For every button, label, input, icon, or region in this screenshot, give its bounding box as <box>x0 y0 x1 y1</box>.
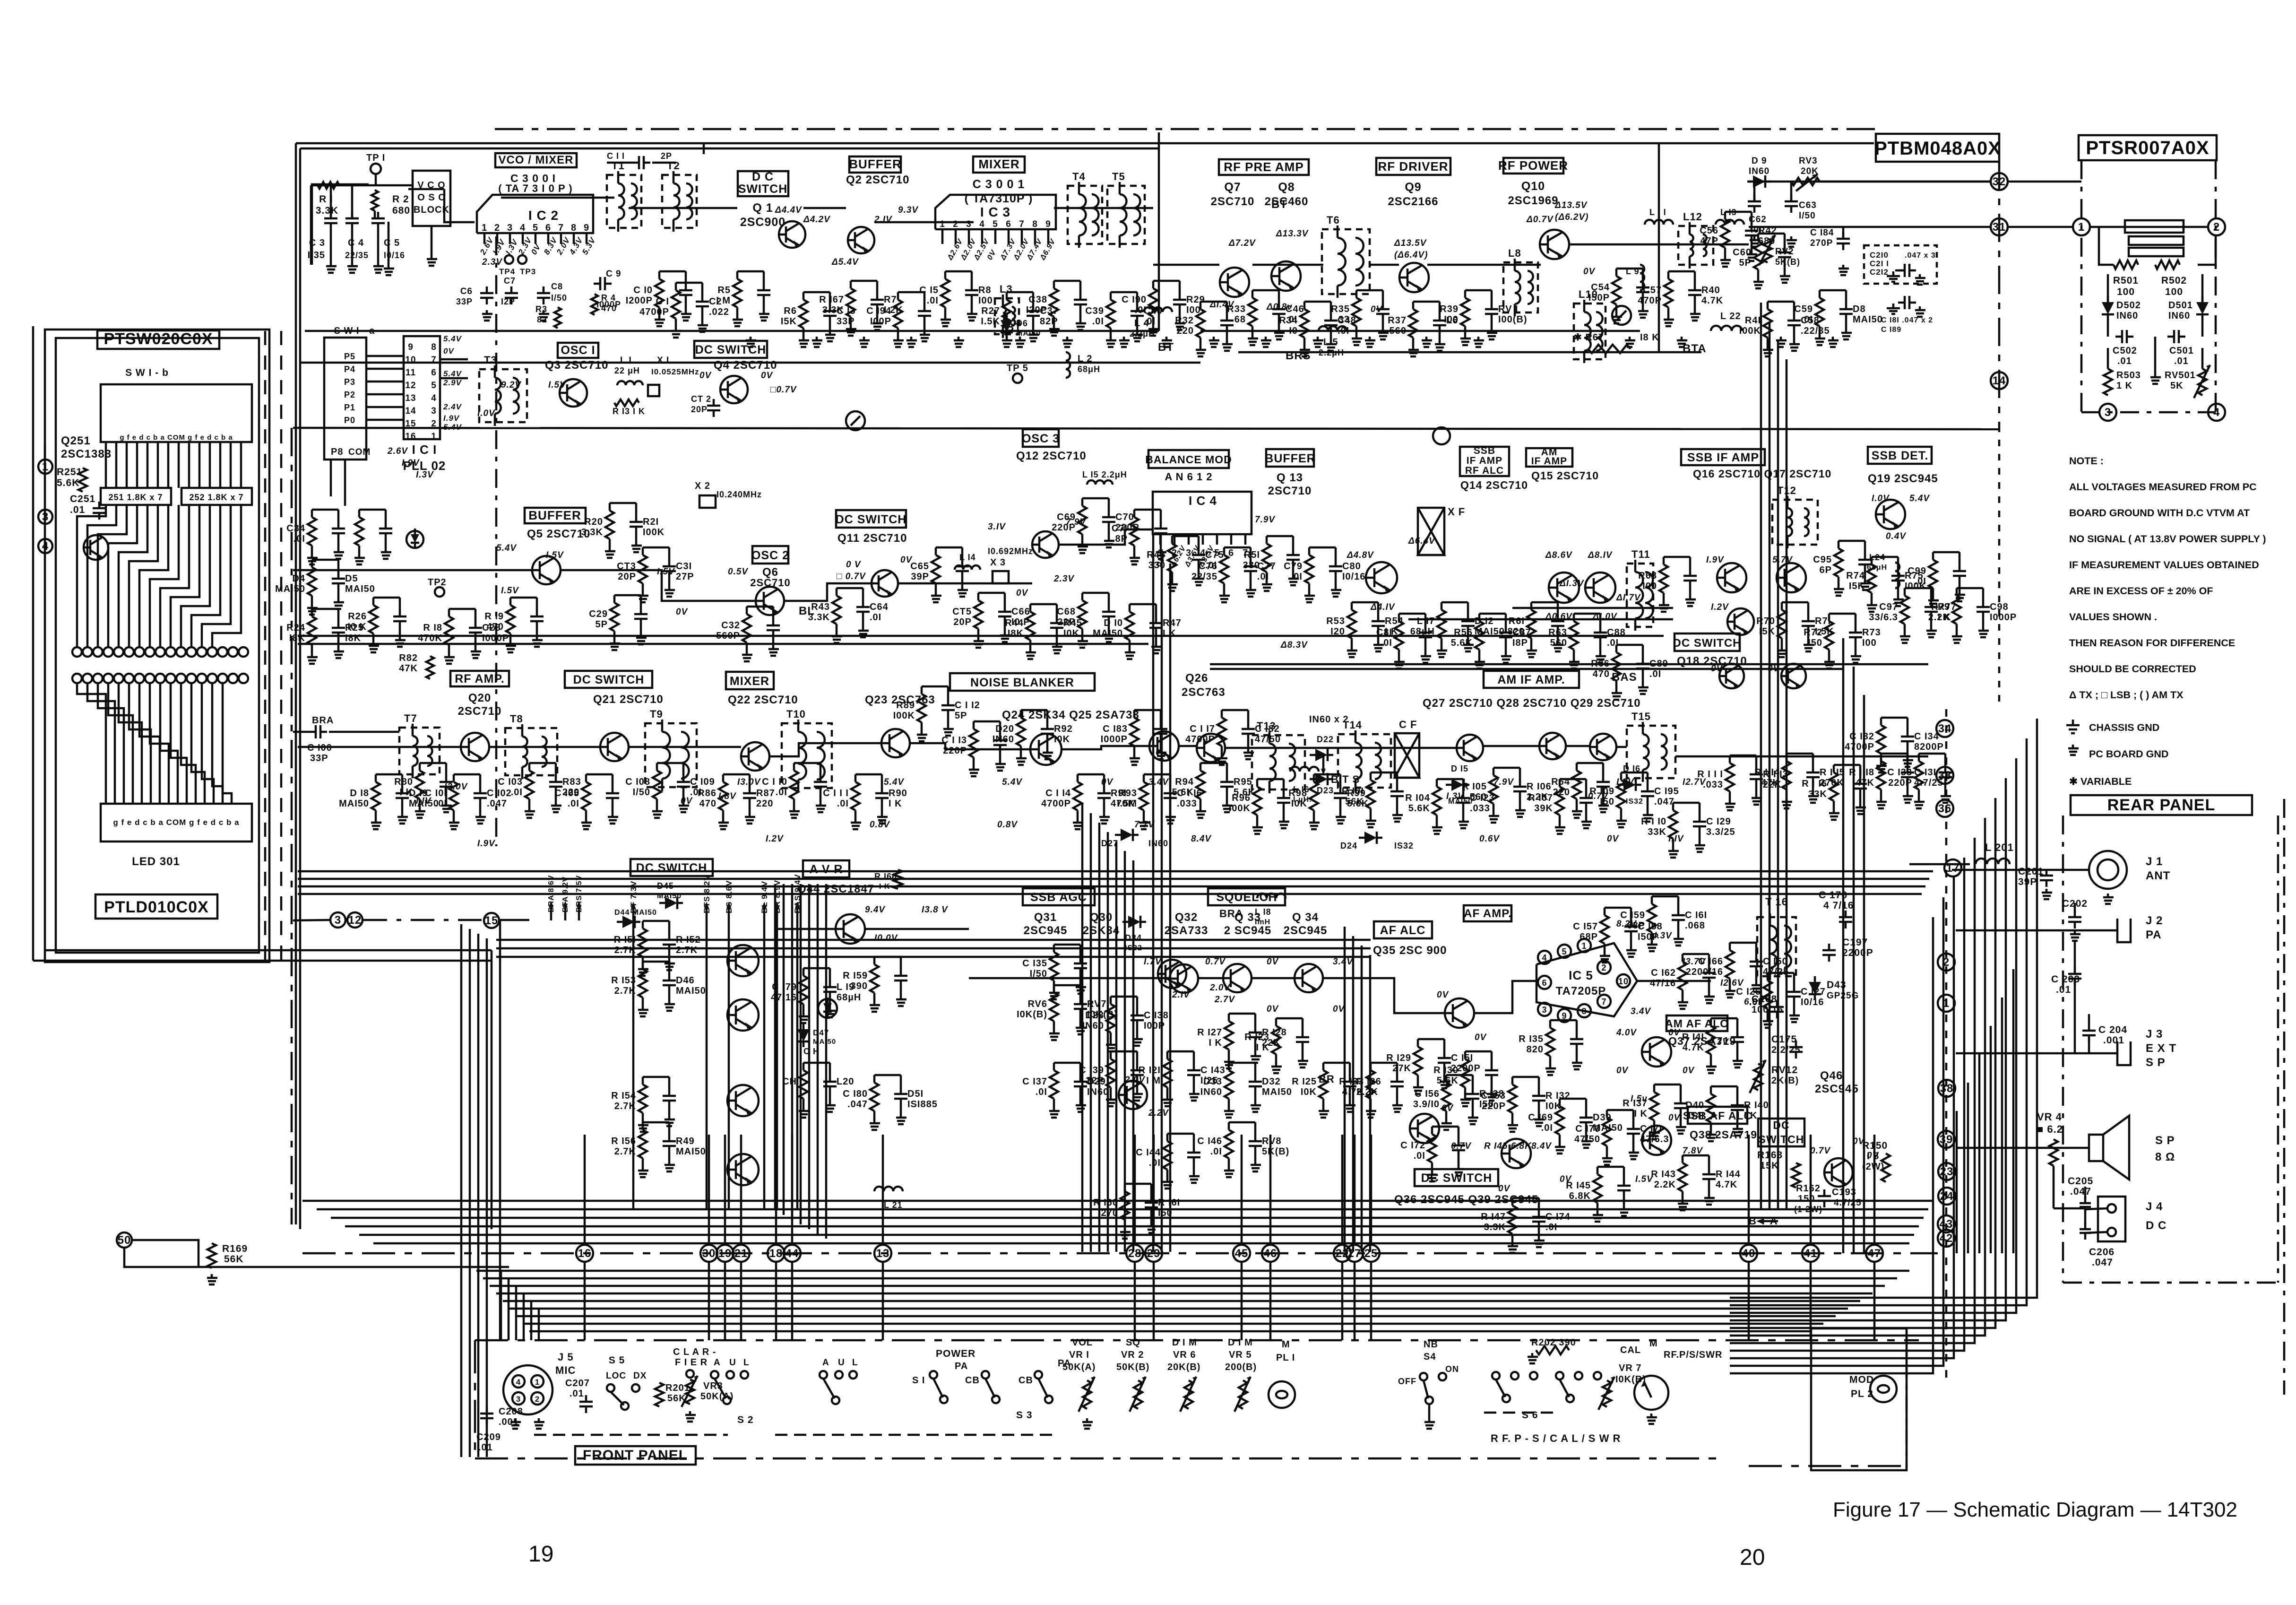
svg-text:ΔI.4V: ΔI.4V <box>1209 300 1234 310</box>
svg-text:S I: S I <box>912 1375 925 1386</box>
cluster R35 <box>1352 298 1361 326</box>
svg-text:I000P: I000P <box>1990 612 2017 623</box>
svg-text:19: 19 <box>528 1542 553 1567</box>
block label DC SWITCH (Q46) <box>1758 1119 1804 1146</box>
svg-text:A N 6 1 2: A N 6 1 2 <box>1165 471 1212 483</box>
svg-text:IN60: IN60 <box>1082 1021 1104 1031</box>
cluster C56 <box>1721 219 1729 248</box>
block label DC SWITCH (Q40-43) <box>630 859 713 876</box>
transformer L3 <box>995 298 1019 334</box>
svg-text:I K: I K <box>1163 628 1176 639</box>
cluster C I03 <box>525 771 534 799</box>
svg-text:.0I: .0I <box>511 787 523 798</box>
svg-text:C98: C98 <box>1990 602 2009 612</box>
svg-text:2.3V: 2.3V <box>482 257 502 267</box>
svg-text:8: 8 <box>571 223 577 233</box>
svg-text:I0K: I0K <box>1054 734 1070 745</box>
svg-text:R I29: R I29 <box>1386 1053 1411 1063</box>
svg-text:12: 12 <box>348 914 362 927</box>
transistor Q39 <box>1502 1139 1531 1168</box>
svg-text:4: 4 <box>431 393 437 403</box>
svg-text:I/50: I/50 <box>551 293 567 303</box>
svg-text:R I3 I K: R I3 I K <box>613 407 645 416</box>
node 47 <box>1866 1245 1883 1262</box>
svg-text:S4: S4 <box>1424 1352 1436 1362</box>
transistor Q18 <box>1727 608 1754 635</box>
inductor L21 <box>874 1187 903 1191</box>
svg-text:R92: R92 <box>1054 724 1073 734</box>
svg-text:R I52: R I52 <box>676 935 701 945</box>
cluster R94 <box>1196 771 1205 799</box>
inductor L18 1mH <box>1257 894 1286 898</box>
node 1 <box>1938 995 1955 1012</box>
svg-text:Δ6.4V: Δ6.4V <box>1408 536 1435 546</box>
svg-text:5: 5 <box>1562 947 1567 956</box>
block label MIXER Q22 <box>726 672 774 689</box>
svg-text:C56: C56 <box>1700 226 1718 236</box>
svg-text:I0K: I0K <box>1301 1087 1317 1097</box>
svg-text:D 9: D 9 <box>1752 156 1767 166</box>
svg-text:82P: 82P <box>1040 316 1058 327</box>
svg-text:5.6K: 5.6K <box>1451 638 1473 648</box>
svg-text:46: 46 <box>1264 1247 1277 1260</box>
svg-text:Δ0.7V: Δ0.7V <box>1526 215 1554 225</box>
svg-text:I/35: I/35 <box>308 250 325 260</box>
svg-text:PL I: PL I <box>1276 1353 1295 1363</box>
svg-text:R I43: R I43 <box>1651 1169 1676 1180</box>
wire: grounds row1 <box>750 337 752 340</box>
svg-text:P0: P0 <box>344 416 355 425</box>
cluster R I07 <box>1555 787 1564 815</box>
wire bus: diagonal staircase right of AVR <box>774 884 777 1210</box>
transformer T8 <box>505 728 557 775</box>
svg-text:TP3: TP3 <box>520 267 536 276</box>
svg-text:R202 390: R202 390 <box>1531 1337 1576 1348</box>
cluster C I90 <box>1149 288 1157 317</box>
cluster C I70 <box>1603 1118 1611 1146</box>
svg-text:2K(B): 2K(B) <box>1771 1076 1799 1086</box>
wire: row4 spine <box>775 928 836 930</box>
block label MIXER (IC3) <box>973 156 1025 173</box>
svg-text:RF DRIVER: RF DRIVER <box>1378 159 1448 174</box>
svg-text:R I07: R I07 <box>1528 793 1553 803</box>
connector J5 MIC <box>503 1365 552 1414</box>
cluster C I I7 <box>1217 718 1226 746</box>
svg-text:I0/16: I0/16 <box>1342 572 1365 582</box>
svg-text:MAI50: MAI50 <box>275 584 305 594</box>
svg-text:0.6V: 0.6V <box>1479 834 1500 844</box>
svg-text:6.8K: 6.8K <box>1569 1191 1591 1201</box>
block label AF AMP <box>1464 905 1511 921</box>
svg-text:(Δ6.4V): (Δ6.4V) <box>1394 250 1428 260</box>
svg-text:2P: 2P <box>661 151 672 161</box>
svg-text:13: 13 <box>405 393 416 403</box>
svg-text:C I82: C I82 <box>1255 724 1280 734</box>
cluster C I80 <box>870 1083 879 1111</box>
cluster R I23 <box>1272 1026 1280 1054</box>
svg-text:I3.7V: I3.7V <box>1683 957 1706 967</box>
svg-text:13: 13 <box>876 1247 890 1260</box>
cluster C95 <box>1834 548 1843 577</box>
svg-text:C205: C205 <box>2068 1176 2093 1187</box>
svg-text:L8: L8 <box>1508 247 1521 259</box>
wire bus: horizontal mid-left links <box>293 920 329 920</box>
svg-text:18: 18 <box>769 1247 783 1260</box>
svg-text:0V: 0V <box>1267 1004 1279 1014</box>
transistor Q44 <box>836 914 865 944</box>
svg-text:D I6: D I6 <box>1623 764 1640 773</box>
cluster R I54 <box>639 1084 647 1113</box>
transformer T2 <box>662 175 697 228</box>
svg-text:D501: D501 <box>2168 300 2193 311</box>
wire: PTSR007A0X dashed frame <box>2080 160 2083 412</box>
svg-text:220P: 220P <box>1888 778 1912 788</box>
svg-text:4.7/25: 4.7/25 <box>1834 1198 1862 1208</box>
svg-text:A: A <box>714 1358 721 1368</box>
svg-text:I.3V: I.3V <box>504 237 520 256</box>
svg-text:I00: I00 <box>1444 314 1459 325</box>
svg-text:R I40: R I40 <box>1744 1100 1769 1110</box>
svg-text:2.2μH: 2.2μH <box>1130 329 1155 338</box>
svg-text:5.4V: 5.4V <box>443 334 462 343</box>
svg-text:0V: 0V <box>1101 777 1113 787</box>
svg-text:R I4I: R I4I <box>1682 1032 1704 1042</box>
svg-text:D40: D40 <box>1685 1100 1704 1110</box>
svg-text:41: 41 <box>1804 1247 1818 1260</box>
svg-text:.0I: .0I <box>870 612 881 623</box>
svg-text:47K: 47K <box>1761 778 1780 788</box>
svg-text:D28: D28 <box>1085 1010 1104 1021</box>
svg-text:6: 6 <box>431 368 437 378</box>
svg-text:I0K(B): I0K(B) <box>1017 1009 1047 1020</box>
svg-text:2.IV: 2.IV <box>1172 990 1190 1000</box>
svg-text:IC 5: IC 5 <box>1569 968 1593 982</box>
svg-text:R I8: R I8 <box>423 623 442 633</box>
svg-text:C I29: C I29 <box>1706 816 1731 827</box>
cluster C I83 <box>1130 718 1139 746</box>
wire: LED staircase bundle lower <box>77 683 106 804</box>
svg-text:1: 1 <box>940 219 945 229</box>
svg-text:R I05: R I05 <box>1462 781 1487 792</box>
svg-text:1 K: 1 K <box>2116 381 2132 391</box>
node 22 <box>1334 1245 1351 1262</box>
jack J3 EXT SP <box>2117 1041 2131 1065</box>
svg-text:1: 1 <box>431 432 437 442</box>
svg-text:T9: T9 <box>650 708 663 720</box>
svg-text:8 Ω: 8 Ω <box>2155 1151 2175 1163</box>
svg-text:I.9V: I.9V <box>402 458 420 468</box>
svg-text:I.5K: I.5K <box>981 316 1000 327</box>
svg-text:R501: R501 <box>2113 275 2139 286</box>
cluster C I44 <box>1163 1141 1172 1170</box>
cluster R5 <box>733 279 742 307</box>
wire bus: squelch verticals <box>1344 927 1346 1252</box>
ground J5 <box>514 1418 517 1422</box>
svg-text:BRA: BRA <box>1219 908 1243 920</box>
svg-text:VALUES SHOWN .: VALUES SHOWN . <box>2069 611 2157 623</box>
svg-text:BRA: BRA <box>312 715 334 726</box>
svg-text:CHASSIS GND: CHASSIS GND <box>2089 722 2159 733</box>
node 21 <box>733 1245 750 1262</box>
svg-text:Q36 2SC945 Q39 2SC945: Q36 2SC945 Q39 2SC945 <box>1394 1193 1538 1206</box>
svg-text:C I5: C I5 <box>919 285 939 295</box>
svg-text:C2I2: C2I2 <box>1870 268 1889 277</box>
svg-text:I00P: I00P <box>1144 1021 1165 1031</box>
svg-text:DC SWITCH: DC SWITCH <box>836 513 907 526</box>
svg-text:5: 5 <box>431 381 437 390</box>
svg-text:R I I5: R I I5 <box>1820 767 1845 778</box>
svg-text:J 2: J 2 <box>2146 914 2163 927</box>
svg-text:21: 21 <box>734 1247 748 1260</box>
block label SQUELCH <box>1208 888 1285 905</box>
svg-text:L 2: L 2 <box>1078 354 1093 364</box>
cluster R33 <box>1248 298 1257 326</box>
svg-text:C I I2: C I I2 <box>955 700 980 711</box>
wire bus: RF row ground rail <box>1200 330 1640 332</box>
svg-text:24: 24 <box>1940 1190 1954 1203</box>
cluster R4I <box>1763 309 1772 338</box>
svg-text:0V: 0V <box>1683 1066 1695 1076</box>
svg-text:0V: 0V <box>1437 990 1449 1000</box>
svg-text:0V: 0V <box>1711 664 1723 674</box>
svg-text:220: 220 <box>756 798 773 809</box>
svg-text:5: 5 <box>533 223 538 233</box>
svg-text:AF AMP.: AF AMP. <box>1464 907 1512 920</box>
wire bus: AM IF row link rails <box>1210 663 1928 666</box>
resistor R13 1K <box>614 399 639 406</box>
svg-text:3.3K: 3.3K <box>1484 1222 1506 1232</box>
vco block <box>413 171 450 226</box>
node 50 <box>117 1232 132 1248</box>
node 28 <box>1126 1245 1143 1262</box>
board label PTSR007A0X <box>2079 135 2217 160</box>
svg-text:0V: 0V <box>681 796 693 806</box>
svg-text:C I74: C I74 <box>1545 1212 1571 1222</box>
IC U4 (IC 4 AN612) <box>1153 492 1252 534</box>
svg-text:20P: 20P <box>953 617 972 627</box>
svg-text:I μH.: I μH. <box>1293 796 1312 804</box>
svg-text:A: A <box>822 1358 829 1368</box>
svg-text:R4I: R4I <box>1745 315 1761 326</box>
note: chassis gnd symbol <box>2072 720 2074 725</box>
svg-text:.01: .01 <box>2056 984 2071 995</box>
svg-text:2SC945: 2SC945 <box>1024 924 1068 937</box>
svg-text:g f e d c b a COM g f e d c b: g f e d c b a COM g f e d c b a <box>120 434 233 442</box>
capacitor C11 2P <box>638 156 640 169</box>
svg-text:R95: R95 <box>1234 777 1252 787</box>
svg-text:0V: 0V <box>1498 1184 1511 1194</box>
cluster R I56 <box>639 1130 647 1158</box>
svg-text:R56: R56 <box>1454 627 1473 638</box>
svg-text:16: 16 <box>578 1247 592 1260</box>
svg-text:Δ5.4V: Δ5.4V <box>831 257 859 267</box>
svg-text:I.5M: I.5M <box>1117 798 1137 809</box>
svg-text:0V: 0V <box>699 371 712 381</box>
svg-text:I5K: I5K <box>1849 581 1865 591</box>
svg-text:I0/16: I0/16 <box>1801 997 1824 1007</box>
svg-text:.047: .047 <box>2092 1257 2113 1268</box>
cluster R24 <box>308 616 316 645</box>
cluster C I72 <box>1428 1134 1436 1163</box>
svg-text:R I04: R I04 <box>1405 793 1430 803</box>
cluster R I59 <box>870 964 879 993</box>
wire bus: nested L-bends to right connector column <box>1730 719 2037 1298</box>
svg-text:R I47: R I47 <box>1481 1212 1506 1222</box>
block label BALANCE MOD <box>1148 450 1229 468</box>
svg-text:20: 20 <box>1740 1545 1765 1570</box>
transistor Q37 <box>1642 1037 1671 1067</box>
board label PTBM048A0X <box>1876 134 1999 162</box>
cluster D40 <box>1707 1094 1715 1122</box>
diode D501 IN60 <box>2196 302 2209 314</box>
svg-text:I0/16: I0/16 <box>384 251 405 260</box>
block label SSB IF AMP RF ALC <box>1460 447 1509 476</box>
svg-text:5.6K: 5.6K <box>1408 803 1430 814</box>
svg-text:CT5: CT5 <box>952 607 972 617</box>
svg-text:R I60: R I60 <box>1093 1197 1118 1208</box>
node 3 (bottom) <box>330 912 345 928</box>
svg-text:BUFFER: BUFFER <box>1265 452 1315 465</box>
svg-text:Δ0.6V: Δ0.6V <box>1545 612 1572 622</box>
transistor Q40 <box>727 945 759 976</box>
crystal filter XF <box>1418 508 1444 555</box>
resistor R202 390 <box>1536 1346 1569 1354</box>
svg-text:R39: R39 <box>1440 304 1459 314</box>
svg-text:I/50: I/50 <box>1799 211 1816 221</box>
transistor Q16b <box>1719 664 1744 688</box>
wire bus: IC1 PLL connections <box>330 460 332 496</box>
cluster R48 <box>1168 544 1176 572</box>
svg-text:5: 5 <box>993 219 998 229</box>
svg-text:4 7/16: 4 7/16 <box>1823 900 1854 911</box>
block label SSB AGC <box>1023 888 1095 905</box>
transistor Q45 (small) <box>1433 427 1450 444</box>
svg-text:.047: .047 <box>2070 1186 2091 1197</box>
svg-text:2.2μH: 2.2μH <box>1319 348 1344 357</box>
svg-text:Q31: Q31 <box>1034 911 1057 924</box>
svg-text:22/35: 22/35 <box>1191 572 1217 582</box>
svg-text:P4: P4 <box>344 364 355 374</box>
svg-text:CT 2: CT 2 <box>691 394 711 404</box>
svg-text:C70: C70 <box>1115 512 1134 522</box>
node 3 (PTSR) <box>2099 404 2116 421</box>
svg-text:56K: 56K <box>1345 797 1364 807</box>
svg-text:SQ: SQ <box>1126 1337 1140 1348</box>
svg-text:C I03: C I03 <box>498 777 523 787</box>
cluster C I32 <box>1877 725 1885 754</box>
cluster R53 <box>1347 610 1356 638</box>
svg-text:C I I: C I I <box>607 151 625 161</box>
svg-text:0V: 0V <box>676 607 688 617</box>
svg-text:7.9V: 7.9V <box>1255 515 1275 525</box>
svg-text:Δ0.8ν: Δ0.8ν <box>1266 302 1293 312</box>
svg-text:Q26: Q26 <box>1185 672 1208 685</box>
resistor R1 3.3K <box>318 182 339 189</box>
block label RF AMP <box>450 671 509 686</box>
svg-text:I.0V: I.0V <box>1872 494 1890 503</box>
transistor Q4 <box>720 376 748 403</box>
svg-text:0V: 0V <box>1768 664 1780 674</box>
svg-text:MAI50: MAI50 <box>1093 628 1123 639</box>
cluster C I I0 <box>790 771 798 799</box>
wire: PTSR verticals <box>2107 274 2109 303</box>
svg-text:FRONT PANEL: FRONT PANEL <box>583 1448 688 1463</box>
svg-text:L I I: L I I <box>1649 208 1666 217</box>
svg-text:2.9V: 2.9V <box>443 378 462 387</box>
svg-text:VR 2: VR 2 <box>1121 1350 1144 1360</box>
svg-text:68µH: 68µH <box>837 992 861 1003</box>
svg-text:ΔI.0V: ΔI.0V <box>1592 612 1617 622</box>
svg-text:560: 560 <box>1550 638 1567 648</box>
svg-text:2.3V: 2.3V <box>1053 574 1074 584</box>
svg-text:SQUELCH: SQUELCH <box>1216 891 1277 904</box>
block label DC SWITCH Q21 <box>565 671 652 688</box>
cluster C79 <box>1305 555 1313 583</box>
svg-text:Q30: Q30 <box>1090 911 1113 924</box>
svg-text:R 2: R 2 <box>392 194 409 205</box>
svg-text:0.5V: 0.5V <box>728 567 748 577</box>
node 24 <box>1938 1188 1955 1205</box>
svg-text:R72: R72 <box>1804 627 1822 638</box>
cluster R96 <box>1253 787 1261 815</box>
transformer T7 <box>399 728 440 774</box>
svg-text:270P: 270P <box>1810 238 1833 248</box>
svg-text:C3I: C3I <box>676 561 692 572</box>
svg-text:3: 3 <box>335 914 341 927</box>
svg-text:I.2V: I.2V <box>1711 602 1729 612</box>
svg-text:I0.0525MHz: I0.0525MHz <box>651 367 699 376</box>
svg-text:1: 1 <box>2078 221 2085 234</box>
svg-text:F I E R: F I E R <box>675 1357 708 1368</box>
svg-text:150: 150 <box>1798 1194 1815 1204</box>
cluster C I I I <box>851 782 860 810</box>
wire: main board bottom dash-dot frame w/ connector row <box>302 1252 1938 1255</box>
LED segment pads row b <box>72 674 82 683</box>
transformer T15 <box>1627 726 1675 778</box>
block label RF PRE AMP <box>1219 159 1309 175</box>
svg-text:C501: C501 <box>2169 346 2194 356</box>
svg-text:C I84: C I84 <box>1810 228 1834 238</box>
svg-text:C I62: C I62 <box>1651 968 1676 978</box>
node 2 (PTSR) <box>2208 218 2225 235</box>
cluster C I0 <box>655 279 664 307</box>
svg-text:R40: R40 <box>1701 285 1720 295</box>
svg-text:I00(B): I00(B) <box>1498 314 1528 325</box>
transformer L10 <box>1574 304 1605 359</box>
cluster R I35 <box>1546 1028 1554 1056</box>
block label SSB IF AMP <box>1681 449 1765 465</box>
svg-text:I8 K: I8 K <box>1640 332 1659 343</box>
cluster R I04 <box>1433 787 1441 815</box>
block label OSC 2 <box>752 546 788 564</box>
svg-text:C I: C I <box>656 296 669 307</box>
svg-text:PTSW020C0X: PTSW020C0X <box>104 330 213 348</box>
svg-text:✱ VARIABLE: ✱ VARIABLE <box>2069 776 2132 787</box>
svg-text:RV8: RV8 <box>1262 1136 1282 1146</box>
svg-text:23: 23 <box>1940 1165 1954 1178</box>
transformer T3 <box>479 369 527 422</box>
svg-text:R35: R35 <box>1331 304 1350 314</box>
svg-text:C99: C99 <box>1908 566 1926 576</box>
transistor Q5 <box>532 556 561 584</box>
svg-text:C I83: C I83 <box>1103 724 1128 734</box>
svg-text:TP 5: TP 5 <box>1007 363 1028 373</box>
svg-text:D24: D24 <box>1340 841 1357 850</box>
svg-text:I C 4: I C 4 <box>1189 494 1217 508</box>
svg-text:.047: .047 <box>847 1099 868 1110</box>
cluster RV6 <box>1050 993 1058 1021</box>
svg-text:THEN REASON FOR DIFFERENCE: THEN REASON FOR DIFFERENCE <box>2069 637 2235 649</box>
